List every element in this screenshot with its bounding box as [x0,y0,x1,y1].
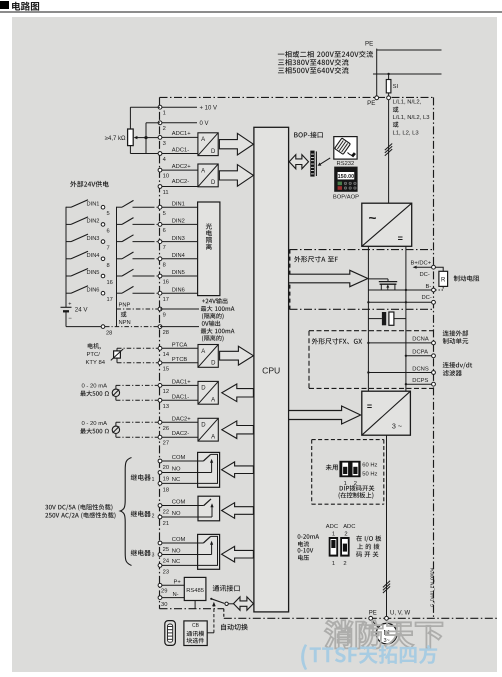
figure id rotated [429,567,434,607]
svg-text:DCNA: DCNA [412,337,429,343]
svg-text:150.00: 150.00 [338,174,355,180]
svg-text:DCNS: DCNS [412,366,429,372]
actuation dashed arrow CB [207,602,216,633]
header black square [0,1,9,9]
BOP link connector [311,151,317,176]
label comm interface [213,585,240,592]
terminal 9 24V out [117,307,200,318]
label braking resistor [454,275,480,281]
terminal PE bottom [369,616,373,620]
terminal DCPA [405,350,436,358]
svg-text:NC: NC [172,559,180,565]
D/A converter DAC1 [198,381,218,404]
svg-text:6: 6 [107,228,110,234]
label connect dv/dt filter [443,362,473,376]
svg-text:NO: NO [172,511,181,517]
terminal 4 ADC1- [158,147,198,163]
svg-text:8: 8 [107,263,110,269]
24V bus left [65,207,67,327]
svg-text:ADC2+: ADC2+ [172,164,191,170]
svg-text:PNP: PNP [119,302,131,308]
wire mains line [373,73,442,75]
svg-text:A: A [211,398,215,404]
terminal 22 RL2 COM [158,499,185,515]
thermistor PTC [111,349,123,360]
switch DIN2 example [66,217,110,235]
svg-text:=: = [367,401,372,411]
terminal 26 DAC2+ [158,416,198,432]
svg-text:DAC2+: DAC2+ [172,416,191,422]
A/D converter ADC2 [198,164,218,187]
relay RL1 changeover contact [160,452,220,487]
svg-text:BOP/AOP: BOP/AOP [333,194,359,200]
svg-text:D: D [211,149,216,155]
watermark blue text [301,644,437,670]
svg-text:PE: PE [367,100,375,107]
mains text 500V-640V [278,67,349,74]
DIP switch ADC1 [329,537,338,557]
wire battery to contact 28 [66,325,158,337]
terminal 17 DIN6 [158,287,198,302]
DIP switch ADC2 [340,537,349,557]
svg-text:D: D [201,386,206,392]
switch DIN1 input [117,200,159,207]
relay RL3 changeover contact [160,534,220,569]
terminal 28 0V out [158,325,199,336]
svg-text:25: 25 [163,547,169,553]
DC bus right rail [405,246,407,391]
A/D converter PTC [198,345,218,368]
terminal 30 N- [158,592,184,608]
wire B- rail [368,289,433,291]
svg-text:~: ~ [369,211,377,226]
RS485 module [184,577,206,600]
svg-text:1: 1 [152,477,155,483]
header rule [0,11,502,13]
label ADC ADC [326,524,356,530]
svg-text:DIN6: DIN6 [172,287,185,293]
switch DIN2 input [117,218,159,225]
svg-text:3: 3 [163,141,166,147]
svg-text:20: 20 [163,465,169,471]
svg-text:DIN3: DIN3 [172,236,185,242]
label 0V output max 100mA [201,321,235,342]
svg-text:NO: NO [172,466,181,472]
wire pot top to terminal 1 [130,107,160,129]
svg-text:B-: B- [426,284,432,290]
wire mains to rectifier [388,100,390,204]
svg-text:21: 21 [163,521,169,527]
label frame sizes A to F [294,256,338,262]
wire PE drop [376,49,378,96]
converter outline right border [433,97,435,618]
terminal 15 PTCB [158,357,198,373]
svg-text:0 - 20 mA: 0 - 20 mA [82,421,108,427]
svg-text:13: 13 [163,404,169,410]
terminal 12 DAC1+ [158,379,198,395]
battery 24V [61,302,89,322]
svg-text:NPN: NPN [119,320,131,326]
label +10V [200,106,218,112]
wire PE line [377,49,442,51]
BOP double arrow [289,155,308,169]
terminal motor output [385,616,389,620]
switch DIN4 input [117,252,159,259]
svg-text:18: 18 [163,487,169,493]
svg-text:PE: PE [369,611,377,617]
terminal DCNS [367,366,435,374]
svg-text:N-: N- [173,592,179,598]
label relay load ratings [45,504,115,519]
svg-text:23: 23 [163,569,169,575]
label DIP 1 2 [344,481,357,487]
label DAC1 0-20mA 500ohm [80,383,109,396]
svg-text:5: 5 [163,211,166,217]
fuse SI [386,74,398,96]
terminal 27 DAC2- [158,431,198,447]
svg-text:DC-: DC- [422,295,432,301]
svg-text:L/L1, N/L2,: L/L1, N/L2, [393,100,422,106]
converter outline bottom border left part [160,608,224,610]
terminal 2 [158,121,197,132]
label DC- upper [420,272,430,278]
svg-text:22: 22 [163,510,169,516]
relay RL2 NO contact [160,496,220,521]
wire pot bottom to terminal 4 [130,146,160,154]
terminal 10 ADC2+ [158,164,198,180]
rectifier AC/DC [362,203,412,246]
terminal B+/DC+ [411,260,436,269]
svg-text:2: 2 [343,561,346,567]
svg-text:A: A [201,137,205,143]
signal arrow CPU to DAC1 [222,384,254,402]
wire DAC1+ lead [116,385,158,389]
gray arrow CPU to inverter [289,406,361,424]
converter outline bottom border step [223,609,225,619]
svg-text:+ 10 V: + 10 V [200,106,218,112]
node mains tap junction [387,73,389,75]
brace relay group [120,458,131,566]
svg-text:PE: PE [365,41,373,48]
svg-text:27: 27 [163,441,169,447]
svg-text:+: + [68,302,71,308]
svg-text:DIN4: DIN4 [172,253,185,259]
label PNP or NPN [119,302,131,326]
svg-text:ADC1-: ADC1- [172,147,189,153]
terminal 1 [158,105,197,116]
switch DIN6 input [117,286,159,293]
switch DIN6 example [66,286,113,304]
terminal 5 DIN1 [158,201,198,216]
svg-text:ADC1+: ADC1+ [172,131,191,137]
svg-text:17: 17 [107,297,113,303]
svg-text:28: 28 [163,330,169,336]
label PE bottom [369,611,377,617]
svg-text:1: 1 [332,532,335,538]
label relay2 [131,511,155,520]
label U V W [390,611,410,617]
signal arrow ADC1 to CPU [219,133,253,155]
terminal 19 RL1 NO [158,466,181,482]
svg-text:L1, L2, L3: L1, L2, L3 [393,131,420,137]
wire terminal 2 to 0V link [146,123,160,154]
svg-text:1: 1 [332,561,335,567]
three-phase slash marks input [385,144,392,156]
comm double arrow to CPU [234,597,254,610]
terminal DCNA [367,337,435,345]
svg-text:CPU: CPU [262,366,280,376]
svg-text:16: 16 [163,280,169,286]
terminal 24 RL3 NO [158,548,181,564]
wire PTCA lead [117,348,158,351]
wire DAC2- lead [116,434,158,438]
wire DAC1- lead [116,397,158,401]
svg-text:DIN2: DIN2 [87,219,100,225]
switch DIN4 example [66,251,110,268]
DIP switch box on control board [312,440,384,505]
wire DC- rail [367,301,433,303]
D/A converter DAC2 [198,418,218,441]
terminal 7 DIN3 [158,236,198,251]
svg-text:29: 29 [161,589,167,595]
signal arrow PTC to CPU [220,346,254,365]
pointer line to connector [318,158,331,166]
svg-text:DC-: DC- [420,272,430,278]
svg-text:3: 3 [152,552,155,558]
svg-text:A: A [201,349,205,355]
wire DAC2+ lead [116,422,158,426]
label 0V [200,121,209,127]
terminal 29 P+ [158,580,184,595]
terminal 11 ADC2- [158,179,198,196]
bus DIN common right bank [116,207,118,327]
connector CB option [165,621,176,646]
svg-text:G_DA01_EN_00034: G_DA01_EN_00034 [429,567,434,607]
svg-text:2: 2 [344,532,347,538]
converter outline left border [159,97,161,608]
svg-text:COM: COM [172,537,186,543]
svg-text:U, V, W: U, V, W [390,611,410,617]
svg-text:0 V: 0 V [200,121,209,127]
label external 24V supply [70,181,109,187]
svg-text:0 - 20 mA: 0 - 20 mA [82,383,108,389]
label automatic changeover [221,624,248,631]
svg-text:D: D [211,180,216,186]
label DIP switch on IO board [356,535,381,557]
terminal B- [426,284,436,292]
svg-text:DAC1+: DAC1+ [172,379,191,385]
terminal 18 RL1 NC [158,477,180,493]
label L/L1 N/L2 options [393,100,431,137]
svg-text:D: D [211,361,216,367]
label RS232 [337,161,355,167]
svg-text:DCPA: DCPA [412,350,428,356]
svg-text:DIN1: DIN1 [172,201,185,207]
RS232 adapter icon [334,137,357,160]
svg-text:30: 30 [161,602,167,608]
svg-text:DCPS: DCPS [412,378,428,384]
meter DAC2 [112,426,119,433]
switch DIN3 example [66,234,110,252]
terminal 20 RL1 COM [158,455,185,471]
terminal L mains [387,96,391,100]
label 24V output max 100mA [201,298,235,319]
terminal DCPS [405,378,436,386]
label relay3 [131,550,155,559]
label 0-20mA current 0-10V voltage [298,534,320,560]
frame size FX GX dashed box [309,331,434,389]
BOP AOP panel icon [335,167,357,191]
signal arrow CPU to DAC2 [222,421,254,439]
svg-text:50 Hz: 50 Hz [362,471,377,477]
terminal 8 DIN4 [158,253,198,268]
svg-text:=: = [398,233,403,243]
svg-text:19: 19 [163,477,169,483]
label >=4,7 kOhm [105,136,126,142]
svg-text:26: 26 [163,426,169,432]
wire inverter output [386,435,388,616]
svg-text:R: R [441,278,446,284]
svg-text:DIN5: DIN5 [172,270,185,276]
label PE at terminal [367,100,375,107]
svg-text:PTCB: PTCB [172,357,188,363]
terminal DC- lower [422,295,436,304]
svg-text:ADC: ADC [343,524,355,530]
svg-text:16: 16 [107,280,113,286]
inverter DC/AC [362,391,411,435]
svg-text:2: 2 [163,126,166,132]
three-phase slash marks output [383,581,390,593]
svg-text:PTCA: PTCA [172,342,188,348]
switch DIN1 example [66,200,110,218]
opto-isolation block [198,202,220,296]
meter DAC1 [112,389,119,396]
svg-text:ADC2-: ADC2- [172,179,189,185]
svg-text:DIN4: DIN4 [87,253,100,259]
svg-text:≥4,7 kΩ: ≥4,7 kΩ [105,136,126,142]
svg-text:COM: COM [172,499,186,505]
label PE top [365,41,373,48]
svg-text:P+: P+ [174,580,182,586]
wire RS485 down [194,601,196,609]
CPU block [254,127,289,612]
svg-text:6: 6 [163,228,166,234]
svg-text:1: 1 [163,111,166,117]
label ADC 1 2 bottom [332,561,347,567]
wire pot wiper to terminal 3 [144,136,160,139]
svg-text:9: 9 [163,312,166,318]
label unused [326,464,338,470]
svg-text:24 V: 24 V [75,306,89,313]
label ADC 1 2 top [332,532,348,538]
svg-text:DIN1: DIN1 [87,201,100,207]
svg-text:−: − [68,316,72,322]
svg-text:SI: SI [393,84,399,90]
svg-text:10: 10 [163,174,169,180]
svg-text:DIN2: DIN2 [172,219,185,225]
label DAC2 0-20mA 500ohm [80,421,109,434]
svg-text:7: 7 [163,245,166,251]
braking resistor R [435,267,447,290]
switch DIN5 example [66,269,113,287]
svg-text:A: A [211,435,215,441]
svg-text:17: 17 [163,297,169,303]
signal arrow CPU to RL2 [222,503,254,519]
watermark outline text [325,620,443,648]
svg-text:DIN3: DIN3 [87,236,100,242]
label motor PTC KTY84 [86,343,106,366]
svg-text:DIN5: DIN5 [87,270,100,276]
svg-text:2: 2 [152,513,155,519]
terminal 21 RL2 NO [158,511,181,527]
switch automatic changeover [210,598,233,606]
svg-text:KTY 84: KTY 84 [86,360,106,366]
DIP switch 50/60Hz [339,461,360,477]
gray arrow CPU to chopper [289,270,368,286]
terminal 6 DIN2 [158,219,198,234]
svg-text:A: A [201,168,205,174]
svg-text:24: 24 [163,559,170,565]
CB communication module box [184,621,207,646]
svg-text:L/L1, N/L2, L3: L/L1, N/L2, L3 [393,115,431,121]
label BOP/AOP [333,194,359,200]
svg-text:RS232: RS232 [337,161,355,167]
terminal PE top [375,96,379,100]
transistor braking chopper [368,279,397,290]
DC bus left rail [367,246,369,391]
title 电路图 [12,2,39,11]
motor M 3~ [376,623,397,644]
svg-text:12: 12 [163,389,169,395]
terminal 25 RL3 COM [158,537,185,553]
mains text 380V-480V [278,59,349,66]
svg-text:DAC1-: DAC1- [172,394,189,400]
signal arrow CPU to RL1 [222,462,254,478]
wire PE to motor [372,620,379,628]
svg-text:8: 8 [163,262,166,268]
svg-text:3 ~: 3 ~ [392,422,402,431]
svg-text:15: 15 [163,366,169,372]
svg-text:D: D [201,423,206,429]
potentiometer 4.7k [128,129,146,146]
frame size A-F dashed box [290,250,434,310]
svg-text:7: 7 [107,246,110,252]
svg-text:NO: NO [172,548,181,554]
svg-text:DIN6: DIN6 [87,287,100,293]
svg-text:11: 11 [163,190,169,196]
terminal 16 DIN5 [158,270,198,285]
A/D converter ADC1 [198,133,218,156]
svg-text:60 Hz: 60 Hz [362,463,377,469]
converter outline top border [160,96,434,98]
mains text 200V-240V [278,51,373,58]
label BOP interface [294,132,323,138]
svg-text:PTC/: PTC/ [87,352,101,358]
terminal 3 ADC1+ [158,131,198,147]
svg-text:COM: COM [172,455,186,461]
signal arrow ADC2 to CPU [219,165,253,187]
svg-text:28: 28 [106,331,112,337]
wire PTCB lead [117,358,158,363]
switch DIN5 input [117,269,159,276]
label 60Hz 50Hz [362,463,377,478]
terminal 13 DAC1- [158,394,198,410]
label connect external braking unit [443,330,469,344]
terminal 14 PTCA [158,342,198,358]
svg-text:B+/DC+: B+/DC+ [411,260,432,266]
svg-text:14: 14 [163,352,170,358]
label relay1 [131,474,155,483]
